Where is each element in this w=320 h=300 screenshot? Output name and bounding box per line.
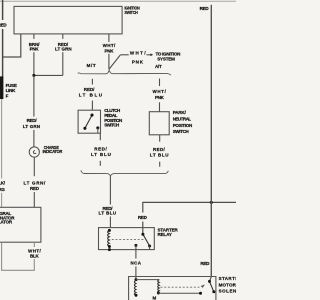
svg-text:M: M [153, 296, 157, 300]
svg-text:M/T: M/T [87, 63, 96, 68]
svg-text:LINK: LINK [6, 88, 16, 93]
wire RED/LT BLU to clutch switch [91, 79, 93, 110]
svg-text:RED: RED [138, 215, 148, 220]
solenoid contact wire [158, 292, 200, 294]
wire RED horizontal to main line [143, 202, 236, 234]
svg-text:LT BLU: LT BLU [99, 211, 116, 216]
junction dot BRN/PNK + RED/LT GRN [32, 74, 35, 77]
svg-text:MOTOR: MOTOR [219, 283, 236, 288]
wire RED/LT BLU below park/neutral switch [159, 135, 161, 167]
wire NCA [135, 245, 137, 279]
starter motor solenoid box [129, 277, 216, 300]
wire left main lower segment [1, 99, 3, 207]
svg-text:WHT/: WHT/ [103, 43, 116, 48]
relay switch blade [143, 234, 150, 246]
svg-text:NCA: NCA [131, 260, 142, 265]
integral alternator regulator box [0, 207, 41, 242]
wire RED/LT BLU to starter relay [109, 176, 111, 227]
svg-text:RED: RED [0, 23, 7, 28]
wire WHT/PNK to park/neutral switch [159, 79, 161, 112]
solenoid switch blade [210, 281, 214, 291]
svg-text:PNK: PNK [30, 47, 40, 52]
wire WHT/BLK loop below regulator [2, 242, 35, 270]
clutch pedal position switch [78, 110, 100, 133]
upper brace (M/T - A/T alternatives) [78, 70, 171, 75]
clutch switch blade and contacts [85, 115, 92, 128]
svg-text:NEUTRAL: NEUTRAL [173, 117, 192, 122]
fuse link F [0, 76, 3, 99]
wire RED left main (upper segment) [2, 0, 4, 77]
wire RED/LT GRN down to charge indicator [33, 75, 35, 147]
svg-text:PNK: PNK [155, 95, 165, 100]
svg-text:WHT/: WHT/ [153, 89, 167, 94]
svg-text:LT BLU: LT BLU [91, 152, 111, 157]
charge indicator filament [33, 151, 36, 154]
svg-text:BLK: BLK [30, 254, 39, 259]
relay coil [108, 230, 110, 246]
charge indicator [29, 147, 39, 157]
svg-text:WHT/: WHT/ [130, 50, 146, 55]
svg-text:LT GRN/: LT GRN/ [24, 180, 46, 185]
svg-text:PARK/: PARK/ [173, 110, 187, 115]
starter relay box [99, 228, 155, 250]
svg-text:RELAY: RELAY [158, 232, 172, 237]
svg-text:SOLENOID: SOLENOID [219, 288, 236, 293]
wire A/T branch to ignition system [109, 55, 152, 70]
wire branch from left RED line to ignition switch [3, 34, 21, 57]
top border scan line [0, 0, 236, 2]
wire RED/LT BLU below clutch switch [99, 133, 101, 166]
svg-text:SYSTEM: SYSTEM [157, 57, 175, 62]
solenoid dashed actuator [161, 286, 201, 288]
svg-text:RED: RED [200, 261, 210, 266]
svg-text:RED/: RED/ [84, 87, 95, 92]
svg-text:REGULATOR: REGULATOR [0, 219, 13, 224]
junction dot on main RED line [210, 201, 213, 204]
svg-text:PNK: PNK [132, 59, 144, 64]
ignition switch box [14, 6, 122, 34]
svg-text:SWITCH: SWITCH [173, 129, 189, 134]
svg-text:RED/: RED/ [153, 147, 165, 152]
wire RED/LT GRN drop [34, 34, 63, 76]
wire LT GRN/RED below charge indicator [33, 157, 35, 207]
svg-text:RED/: RED/ [27, 118, 38, 123]
wire BRN/PNK [33, 34, 35, 76]
svg-text:RED: RED [30, 186, 40, 191]
svg-text:SWITCH: SWITCH [104, 123, 119, 128]
svg-text:PNK: PNK [105, 48, 115, 53]
svg-text:LT GRN: LT GRN [55, 47, 71, 52]
svg-text:A/T: A/T [155, 64, 162, 69]
svg-text:POSITION: POSITION [173, 123, 192, 128]
svg-text:INDICATOR: INDICATOR [43, 149, 64, 154]
wire into solenoid [210, 277, 212, 282]
solenoid pull-in / hold-in coils [135, 278, 138, 281]
svg-text:LT BLU: LT BLU [150, 152, 168, 157]
svg-text:ORG: ORG [0, 187, 5, 192]
svg-text:RED: RED [200, 6, 210, 11]
wire WHT/PNK from ignition switch [108, 34, 110, 70]
svg-text:RED/: RED/ [94, 146, 107, 151]
relay dashed actuator line [112, 238, 145, 240]
relay NCA contact [134, 244, 137, 247]
lower brace (merge) [81, 170, 168, 176]
svg-text:LT BLU: LT BLU [79, 92, 102, 97]
wire RED main right line [210, 5, 212, 277]
svg-text:LT GRN: LT GRN [23, 124, 40, 129]
park/neutral position switch [149, 112, 169, 135]
svg-text:STARTER: STARTER [219, 276, 236, 281]
svg-text:SWITCH: SWITCH [124, 10, 137, 15]
